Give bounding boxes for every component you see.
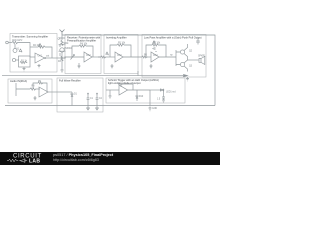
svg-text:R2 10k: R2 10k	[33, 45, 41, 47]
svg-text:LED1 red: LED1 red	[166, 91, 176, 94]
svg-text:light emitting diode of output: light emitting diode of output	[108, 81, 141, 85]
svg-text:Transmitter: Summing Amplifier: Transmitter: Summing Amplifier	[12, 35, 48, 39]
svg-text:Inverting Amplifier: Inverting Amplifier	[106, 36, 127, 40]
svg-text:Audio IN(RCA): Audio IN(RCA)	[10, 79, 27, 83]
svg-text:SPKR1: SPKR1	[198, 56, 206, 58]
svg-text:OA4: OA4	[153, 54, 158, 57]
svg-text:R1 1k: R1 1k	[21, 61, 28, 63]
svg-text:Preamplification Amplifier: Preamplification Amplifier	[67, 38, 96, 42]
svg-text:OA3: OA3	[117, 54, 122, 57]
svg-text:ps0517 / Physics105_FinalProje: ps0517 / Physics105_FinalProject	[53, 153, 114, 157]
svg-text:R4 10k: R4 10k	[80, 44, 88, 46]
svg-text:OA1: OA1	[38, 55, 43, 58]
svg-text:LAB: LAB	[29, 158, 40, 164]
svg-text:Full Wave Rectifier: Full Wave Rectifier	[59, 79, 81, 83]
svg-text:out: out	[46, 55, 49, 58]
svg-text:Low Pass Amplifier with a (Gai: Low Pass Amplifier with a (Gain) Push Pu…	[144, 36, 202, 40]
svg-text:R7 10k: R7 10k	[153, 43, 161, 45]
svg-text:AM1 1kHz: AM1 1kHz	[12, 39, 23, 42]
svg-text:2N3904: 2N3904	[64, 48, 73, 50]
svg-text:http://circuitlab.com/c6t6g83: http://circuitlab.com/c6t6g83	[53, 158, 99, 162]
svg-text:OA2: OA2	[86, 54, 91, 57]
svg-text:GND: GND	[152, 108, 157, 110]
svg-text:R5 10k: R5 10k	[118, 43, 126, 45]
